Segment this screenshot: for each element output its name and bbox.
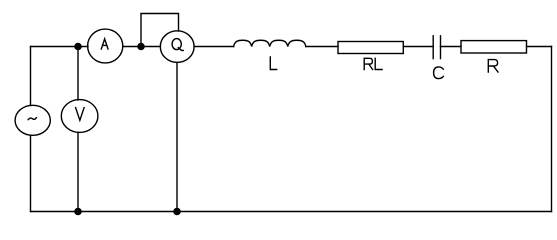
label L	[270, 57, 276, 70]
inductor L	[234, 40, 306, 46]
wire top-left horizontal	[31, 46, 89, 48]
resistor R	[461, 41, 527, 53]
capacitor C left plate	[432, 36, 434, 59]
wire bottom	[31, 211, 552, 213]
label RL	[364, 58, 382, 69]
node C (junction to Q-meter loop)	[138, 43, 144, 49]
node D (bottom junction of Q-meter)	[174, 208, 180, 214]
ammeter label A	[101, 39, 108, 49]
ammeter A	[88, 29, 123, 63]
AC source sine symbol	[28, 118, 36, 120]
wire Q-meter voltage loop	[141, 14, 179, 47]
node B (bottom junction of voltmeter)	[75, 208, 81, 214]
AC source G1	[15, 105, 50, 135]
wire R to right corner	[527, 46, 552, 48]
Q-meter U1	[160, 31, 194, 63]
label R	[488, 60, 498, 72]
wire ammeter to Q-meter	[123, 46, 161, 48]
voltmeter label V	[76, 108, 85, 121]
wire RL to capacitor	[403, 46, 433, 48]
wire left vertical upper	[30, 47, 32, 106]
wire Q-meter to inductor	[194, 46, 234, 48]
wire voltmeter lower	[77, 132, 79, 211]
resistor RL	[338, 42, 403, 54]
wire Q-meter lower	[176, 63, 178, 212]
voltmeter V	[61, 100, 98, 133]
wire voltmeter upper	[77, 47, 79, 101]
wire capacitor to R	[441, 46, 462, 48]
capacitor C right plate	[440, 36, 442, 59]
node A (top junction to voltmeter)	[75, 43, 81, 49]
wire left vertical lower	[30, 135, 32, 211]
wire inductor to RL	[306, 46, 338, 48]
label C	[434, 67, 444, 79]
wire right vertical	[551, 47, 553, 212]
Q-meter label Q	[172, 39, 181, 50]
